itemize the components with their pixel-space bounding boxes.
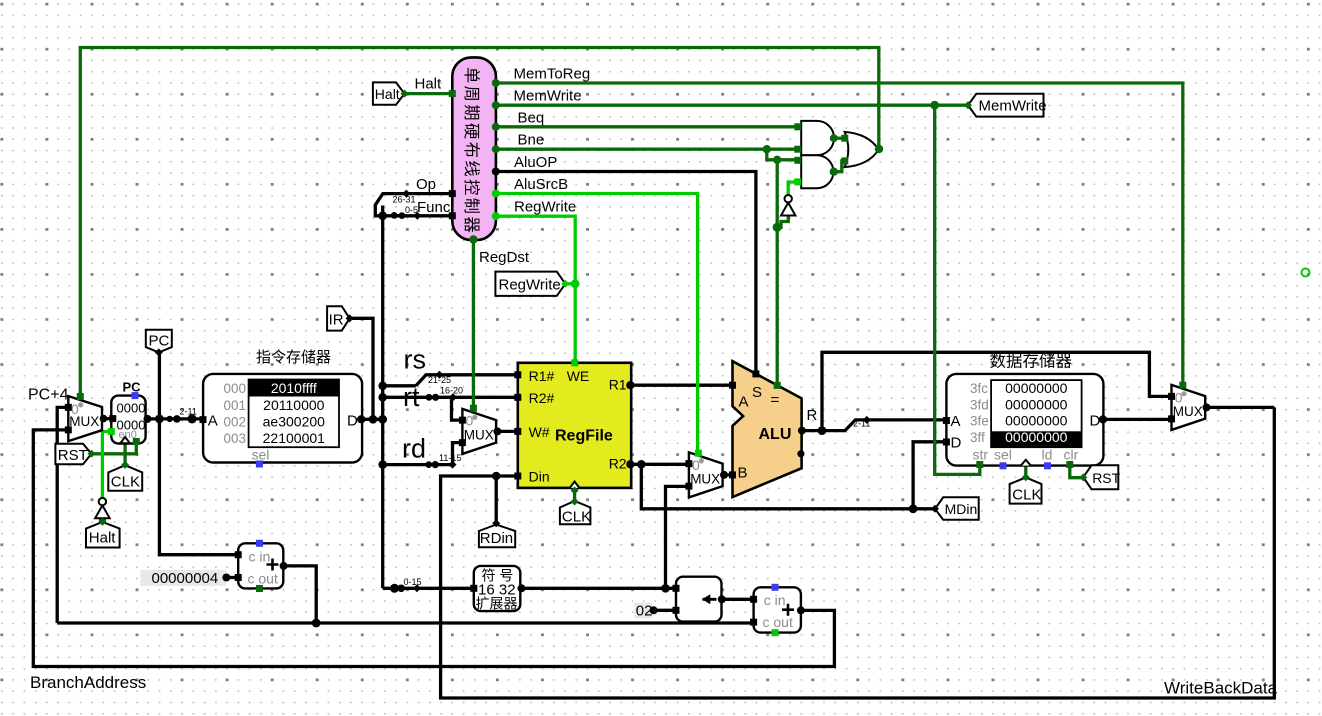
wire rt tap to W mux input0 — [452, 397, 463, 420]
wire Halt tunnel to controller — [405, 92, 453, 95]
svg-text:Bne: Bne — [518, 132, 545, 149]
svg-text:ae300200: ae300200 — [263, 414, 326, 430]
svg-text:00000000: 00000000 — [1005, 380, 1068, 396]
wire bus to rs splitter — [383, 384, 416, 387]
junction store data branch — [909, 504, 918, 513]
svg-text:WE: WE — [567, 368, 590, 384]
node PC register Q output — [144, 415, 152, 423]
splitter Func (bits 0-5) — [383, 214, 450, 217]
wire CLK tunnel to PC register clock — [123, 443, 126, 465]
wire PC tunnel down to Q row — [158, 352, 161, 419]
data memory RAM — [946, 374, 1103, 466]
svg-text:rs: rs — [404, 345, 427, 375]
svg-text:RST: RST — [1092, 470, 1120, 486]
svg-text:MemToReg: MemToReg — [514, 66, 591, 83]
svg-text:D: D — [1090, 412, 1101, 429]
svg-text:003: 003 — [224, 431, 247, 446]
junction bus at rs tap — [378, 382, 387, 391]
svg-text:IR: IR — [329, 312, 344, 329]
svg-text:3fe: 3fe — [970, 414, 989, 429]
NOT gate Halt inverter — [95, 505, 110, 518]
junction immediate to B mux branch — [661, 584, 670, 593]
svg-text:MDin: MDin — [945, 501, 978, 517]
svg-text:str: str — [973, 447, 989, 463]
junction equal net at gate row — [773, 156, 781, 164]
wire ALU R to data memory A — [802, 420, 947, 431]
splitter diamond Func — [413, 212, 421, 220]
svg-text:c in: c in — [249, 548, 271, 564]
node controller RegDst output — [469, 235, 477, 243]
wire ALU R branch to result mux input0 — [822, 352, 1172, 430]
tunnel RDin — [479, 525, 515, 548]
wire PC mux output to PC register D — [102, 417, 111, 420]
junction bus at Op-Func splitter — [378, 211, 387, 220]
wire branch up to data memory D input — [913, 442, 946, 509]
junction Bne tap — [763, 145, 771, 153]
svg-text:单周期硬布线控制器: 单周期硬布线控制器 — [462, 67, 480, 235]
svg-text:clr: clr — [1064, 447, 1079, 463]
splitter 16-20 end dots — [426, 394, 433, 401]
node shifter output — [718, 595, 726, 603]
wire sign extender output — [520, 587, 676, 590]
svg-text:Halt: Halt — [375, 86, 400, 102]
wire RST tunnel to PC register reset — [92, 441, 137, 454]
node instruction memory D output — [358, 415, 366, 423]
node OR gate output — [875, 145, 883, 153]
wire rd tap to W mux input1 — [453, 443, 463, 465]
junction ALU result branch — [818, 426, 827, 435]
NOT gate G4 (equal inverter) — [781, 203, 795, 216]
mux M1 PC source — [68, 396, 102, 441]
wire adder2 output BranchAddress — [33, 430, 834, 667]
controller input pin Op — [449, 190, 456, 197]
shifter shift-left-2 — [676, 577, 722, 622]
svg-text:0: 0 — [692, 457, 700, 473]
wire Halt tunnel to NOT input — [101, 517, 104, 523]
svg-text:3ff: 3ff — [970, 430, 985, 445]
svg-text:ld: ld — [1042, 447, 1053, 463]
svg-text:0-15: 0-15 — [404, 577, 422, 587]
svg-text:rt: rt — [403, 382, 420, 412]
wire branch-taken loop to PC mux select — [80, 48, 879, 401]
controller input pin Func — [449, 212, 456, 219]
wire B mux output to ALU B — [723, 473, 733, 476]
svg-text:00000000: 00000000 — [1005, 429, 1068, 445]
wire equal branch to NOT input — [777, 208, 788, 227]
svg-text:扩展器: 扩展器 — [476, 595, 518, 611]
svg-text:26-31: 26-31 — [393, 195, 416, 205]
wire CLK tunnel to RegFile clock — [573, 488, 576, 504]
node ALU R output — [798, 427, 806, 435]
svg-text:0000: 0000 — [117, 401, 146, 416]
svg-text:R1: R1 — [609, 376, 627, 392]
svg-text:001: 001 — [224, 398, 247, 413]
svg-text:RegFile: RegFile — [555, 427, 613, 444]
svg-text:20110000: 20110000 — [263, 397, 324, 413]
wire AND2 output to OR — [833, 161, 844, 172]
node data memory D output — [1099, 415, 1107, 423]
tunnel PC (points down) — [146, 330, 172, 353]
node PC mux output — [100, 415, 108, 423]
splitter diamond rd — [449, 461, 457, 469]
ALU — [733, 361, 802, 497]
svg-text:R1#: R1# — [529, 368, 555, 384]
register PC — [111, 396, 145, 444]
wire instruction memory D output row — [361, 418, 383, 421]
junction equal net at NOT branch — [773, 223, 782, 232]
RegFile — [518, 363, 631, 488]
wire shifter output to adder2 input a — [722, 598, 754, 601]
tunnel RST (data memory) — [1083, 465, 1118, 489]
svg-text:MUX: MUX — [464, 428, 494, 443]
node AND gate G1 output — [830, 134, 838, 142]
wire RegFile R2 to B mux input0 — [630, 463, 689, 466]
mux M4 result select — [1172, 385, 1206, 430]
node constant 02 output — [650, 606, 658, 614]
svg-text:ALU: ALU — [759, 426, 792, 443]
svg-text:A: A — [208, 412, 218, 429]
svg-text:RegWrite: RegWrite — [514, 199, 576, 216]
tunnel RegWrite — [495, 272, 565, 296]
wire NOT Halt output to PC enable — [102, 432, 110, 499]
svg-text:00000000: 00000000 — [1005, 397, 1068, 413]
instruction memory ROM — [203, 374, 362, 463]
svg-text:AluOP: AluOP — [514, 154, 557, 171]
tunnel CLK (RegFile) — [560, 501, 591, 524]
wire MemToReg to result mux select — [496, 83, 1183, 387]
svg-text:0: 0 — [466, 413, 474, 429]
wire bus to sign extender — [383, 587, 474, 590]
wire RegDst to W mux select — [472, 240, 475, 411]
node sign extender output — [518, 584, 526, 592]
AND gate G2 (Bne & not-equal) — [801, 155, 833, 188]
wire RegWrite to RegFile WE — [496, 216, 575, 363]
svg-text:MUX: MUX — [1173, 404, 1203, 419]
AND gate G1 (Beq & equal) — [801, 121, 834, 155]
splitter diamond rs — [435, 371, 443, 379]
svg-text:00000004: 00000004 — [152, 570, 219, 587]
wire PC register Q to instruction memory A — [146, 417, 203, 420]
splitter diamond Op — [402, 190, 410, 198]
svg-text:3fc: 3fc — [970, 381, 988, 396]
splitter 0-15 end dots — [390, 584, 399, 593]
wire RST tunnel to data memory clr — [1070, 465, 1084, 478]
svg-text:W#: W# — [529, 424, 550, 440]
junction bus at rd row — [378, 460, 387, 469]
svg-text:AluSrcB: AluSrcB — [514, 176, 568, 193]
wire PC+4 distribution line — [57, 621, 753, 624]
wire AluOP to ALU S — [496, 172, 756, 374]
svg-text:00000000: 00000000 — [1005, 413, 1068, 429]
node RegFile R1 output — [626, 381, 634, 389]
svg-text:A: A — [951, 413, 961, 430]
svg-text:WriteBackData: WriteBackData — [1164, 679, 1278, 698]
svg-text:CLK: CLK — [1012, 486, 1041, 503]
splitter diamond 2-11 at memory A — [863, 416, 871, 424]
constant 00000004 — [141, 570, 226, 586]
svg-text:S: S — [752, 384, 762, 401]
wire Bne to AND gates — [496, 148, 798, 151]
splitter Func end dots — [391, 212, 398, 219]
node constant 4 output — [222, 574, 230, 582]
svg-text:sel: sel — [252, 446, 270, 462]
OR gate G3 — [845, 132, 879, 167]
wire IR tunnel branch — [350, 318, 373, 419]
wire R2 branch to memory data in and MDin — [641, 464, 935, 509]
tunnel RST (left) — [55, 444, 91, 465]
svg-text:22100001: 22100001 — [263, 430, 326, 446]
splitter diamond 0-15 — [413, 584, 421, 592]
node B mux output — [720, 471, 728, 479]
junction bus at rt row — [378, 393, 387, 402]
tunnel Halt (top) — [373, 82, 405, 104]
node AND gate G2 output — [830, 168, 838, 176]
svg-text:RDin: RDin — [480, 530, 513, 547]
svg-text:c out: c out — [763, 614, 793, 630]
svg-text:Halt: Halt — [415, 76, 443, 93]
controller input pin Halt — [449, 90, 456, 97]
svg-text:Func: Func — [417, 199, 451, 216]
svg-text:MUX: MUX — [690, 472, 720, 487]
wire rd row — [383, 463, 453, 466]
wire PC+4 up to PC mux input0 — [57, 407, 68, 623]
wire Beq to AND gate — [496, 125, 798, 128]
wire rs line to R1# — [416, 375, 518, 386]
junction IR branch — [369, 415, 378, 424]
splitter 2-11 end dots — [167, 416, 173, 422]
svg-text:R2#: R2# — [529, 390, 555, 406]
svg-text:RST: RST — [58, 447, 88, 464]
adder A2 — [754, 587, 801, 632]
node W mux output — [493, 427, 501, 435]
wire AluSrcB to B mux select — [496, 194, 698, 458]
junction PC net at tunnel branch — [155, 415, 164, 424]
wire Q row down to adder1 input a — [159, 419, 238, 555]
svg-text:Halt: Halt — [89, 530, 117, 547]
wire W mux output to W# — [496, 430, 518, 433]
mux M2 write register select — [462, 409, 496, 454]
svg-text:MUX: MUX — [69, 414, 99, 429]
wire WriteBackData to Din — [441, 407, 1275, 698]
svg-text:PC+4: PC+4 — [28, 387, 69, 404]
tunnel CLK (data memory) — [1010, 478, 1042, 504]
svg-text:A: A — [739, 394, 749, 411]
wire rt row to R2# — [383, 396, 518, 399]
svg-text:BranchAddress: BranchAddress — [30, 673, 146, 692]
svg-text:D: D — [347, 412, 358, 429]
svg-text:rd: rd — [402, 434, 426, 464]
wire adder1 output PC+4 — [283, 566, 316, 623]
junction MemWrite branch to str — [930, 101, 939, 110]
svg-text:Din: Din — [529, 468, 550, 484]
wire MemWrite to tunnel and data memory str — [496, 104, 968, 107]
node result mux output — [1203, 403, 1211, 411]
svg-text:指令存储器: 指令存储器 — [256, 349, 331, 366]
wire ALU equal flag up to gates — [776, 160, 779, 386]
wire constant 4 to adder1 input b — [226, 576, 238, 579]
wire RDin tunnel to Din row — [495, 476, 498, 526]
svg-text:16-20: 16-20 — [440, 385, 463, 395]
svg-text:3fd: 3fd — [970, 398, 989, 413]
junction instruction bus at D row — [378, 415, 387, 424]
wire constant 02 to shifter — [652, 609, 676, 612]
svg-text:CLK: CLK — [562, 509, 591, 526]
controller U1 single-cycle hardwired control — [452, 57, 496, 240]
svg-text:Beq: Beq — [518, 109, 545, 126]
junction RegWrite tunnel tap — [571, 279, 580, 288]
wire result mux output to WriteBackData — [1205, 406, 1274, 409]
svg-text:sel: sel — [994, 447, 1012, 463]
tunnel CLK (left, points up) — [108, 465, 142, 491]
wire RegWrite tunnel stub — [565, 282, 575, 285]
tunnel MDin — [935, 497, 979, 519]
splitter Op (bits 26-31) — [375, 194, 450, 216]
svg-text:PC: PC — [149, 332, 170, 349]
wire RegFile R1 to ALU A — [630, 384, 732, 387]
svg-text:2010ffff: 2010ffff — [271, 380, 317, 396]
svg-text:R: R — [807, 407, 818, 424]
node RegFile R2 output — [626, 460, 634, 468]
unconnected output pin — [1302, 269, 1310, 277]
tunnel Halt (bottom, points up) — [86, 522, 120, 548]
svg-text:c in: c in — [764, 592, 786, 608]
wire CLK tunnel to data memory clock — [1024, 466, 1027, 477]
adder A1 — [238, 543, 283, 588]
svg-text:数据存储器: 数据存储器 — [990, 352, 1073, 371]
tunnel MemWrite — [968, 94, 1044, 117]
svg-text:RegDst: RegDst — [479, 249, 530, 266]
node adder2 output — [797, 606, 805, 614]
svg-text:=: = — [771, 392, 780, 409]
svg-text:RegWrite: RegWrite — [499, 277, 561, 294]
svg-text:MemWrite: MemWrite — [514, 88, 582, 105]
node adder1 output — [280, 562, 288, 570]
svg-text:R2: R2 — [609, 456, 627, 472]
svg-text:MemWrite: MemWrite — [979, 98, 1047, 115]
wire data memory D out to result mux input1 — [1102, 418, 1172, 421]
splitter 11-15 end dots — [425, 461, 432, 468]
wire instruction bus vertical — [381, 206, 384, 589]
junction RDin at Din row — [492, 472, 501, 481]
wire sign extender out to B mux input1 — [666, 486, 689, 588]
junction R2 branch to MDin — [637, 460, 646, 469]
mux M3 ALU B source — [689, 452, 723, 497]
constant 02 — [634, 603, 652, 619]
svg-text:c out: c out — [248, 570, 278, 586]
junction PC+4 net — [312, 619, 321, 628]
sign extender 16-32 — [474, 566, 521, 611]
svg-text:000: 000 — [224, 381, 247, 396]
controller output pins — [492, 79, 500, 87]
node ALU equal output pin — [797, 450, 804, 457]
svg-text:CLK: CLK — [111, 474, 140, 491]
svg-text:B: B — [738, 465, 748, 482]
svg-text:D: D — [951, 434, 962, 451]
tunnel IR — [327, 306, 350, 330]
svg-text:002: 002 — [224, 415, 247, 430]
svg-text:11-15: 11-15 — [439, 453, 461, 463]
wire NOT equal output to AND2 — [788, 182, 798, 195]
wire AND1 output to OR — [833, 137, 844, 140]
splitter diamond rt — [449, 393, 457, 401]
svg-text:Op: Op — [416, 176, 436, 193]
